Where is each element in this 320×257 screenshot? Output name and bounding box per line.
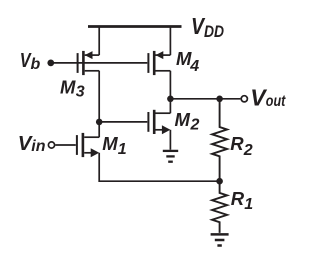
svg-text:3: 3 — [76, 84, 85, 101]
wire: node A to gate of M2 — [99, 121, 147, 123]
wire: M3 source to VDD rail — [98, 27, 100, 56]
wire: M4 drain down through Vout node to M2 drain — [169, 71, 171, 113]
svg-text:in: in — [31, 138, 45, 155]
svg-text:R: R — [231, 188, 245, 209]
node: R1/R2 feedback junction dot — [216, 178, 223, 185]
label R1 — [231, 188, 254, 213]
svg-text:M: M — [60, 77, 76, 98]
wire: Vin input to gate of M1 — [55, 144, 76, 146]
wire: VDD supply rail — [88, 25, 182, 28]
wire: Vb bias line to gates of M3 and M4 — [51, 62, 148, 64]
svg-text:2: 2 — [243, 142, 253, 159]
svg-text:M: M — [175, 109, 191, 130]
wire: M3 drain down through node A to M1 drain — [98, 71, 100, 137]
svg-text:M: M — [102, 133, 118, 154]
svg-text:DD: DD — [204, 22, 224, 41]
node: Vout junction dot at M4/M2 drains — [167, 96, 174, 103]
svg-text:R: R — [230, 133, 244, 154]
svg-text:2: 2 — [190, 117, 200, 134]
svg-text:4: 4 — [189, 58, 199, 75]
label M4 — [176, 48, 199, 75]
label M3 — [60, 77, 85, 101]
label Vin — [18, 132, 46, 155]
node: Vb input junction dot — [47, 60, 54, 67]
node A: M3 drain / M1 drain / M2 gate junction dot — [96, 119, 103, 126]
node: R2 top junction dot on output line — [216, 96, 223, 103]
transistor M3 (PMOS) — [78, 51, 100, 75]
transistor M4 (PMOS) — [148, 51, 170, 75]
label M2 — [175, 109, 200, 134]
label M1 — [102, 133, 127, 158]
resistor R2 — [212, 99, 227, 181]
svg-text:out: out — [266, 93, 286, 110]
transistor M2 (NMOS) — [148, 110, 170, 135]
label Vout — [250, 85, 286, 111]
svg-text:V: V — [250, 85, 267, 111]
terminal: Vin open circle — [48, 142, 54, 148]
wire: M1 source down and feedback line to R1/R2 junction — [99, 153, 219, 181]
wire: M4 source to VDD rail — [169, 27, 171, 56]
ground symbol below R1 — [211, 234, 229, 245]
wire: M2 source to ground — [169, 130, 171, 150]
label R2 — [230, 133, 253, 159]
terminal: Vout open circle — [241, 96, 247, 102]
resistor R1 — [212, 181, 227, 233]
ground symbol below M2 — [163, 151, 178, 162]
svg-text:b: b — [31, 56, 41, 73]
svg-text:1: 1 — [244, 196, 253, 213]
svg-text:1: 1 — [118, 141, 127, 158]
wire: Vout node to output terminal — [170, 98, 240, 100]
label Vb — [20, 49, 41, 73]
transistor M1 (NMOS) — [77, 133, 99, 157]
label VDD — [191, 13, 224, 41]
